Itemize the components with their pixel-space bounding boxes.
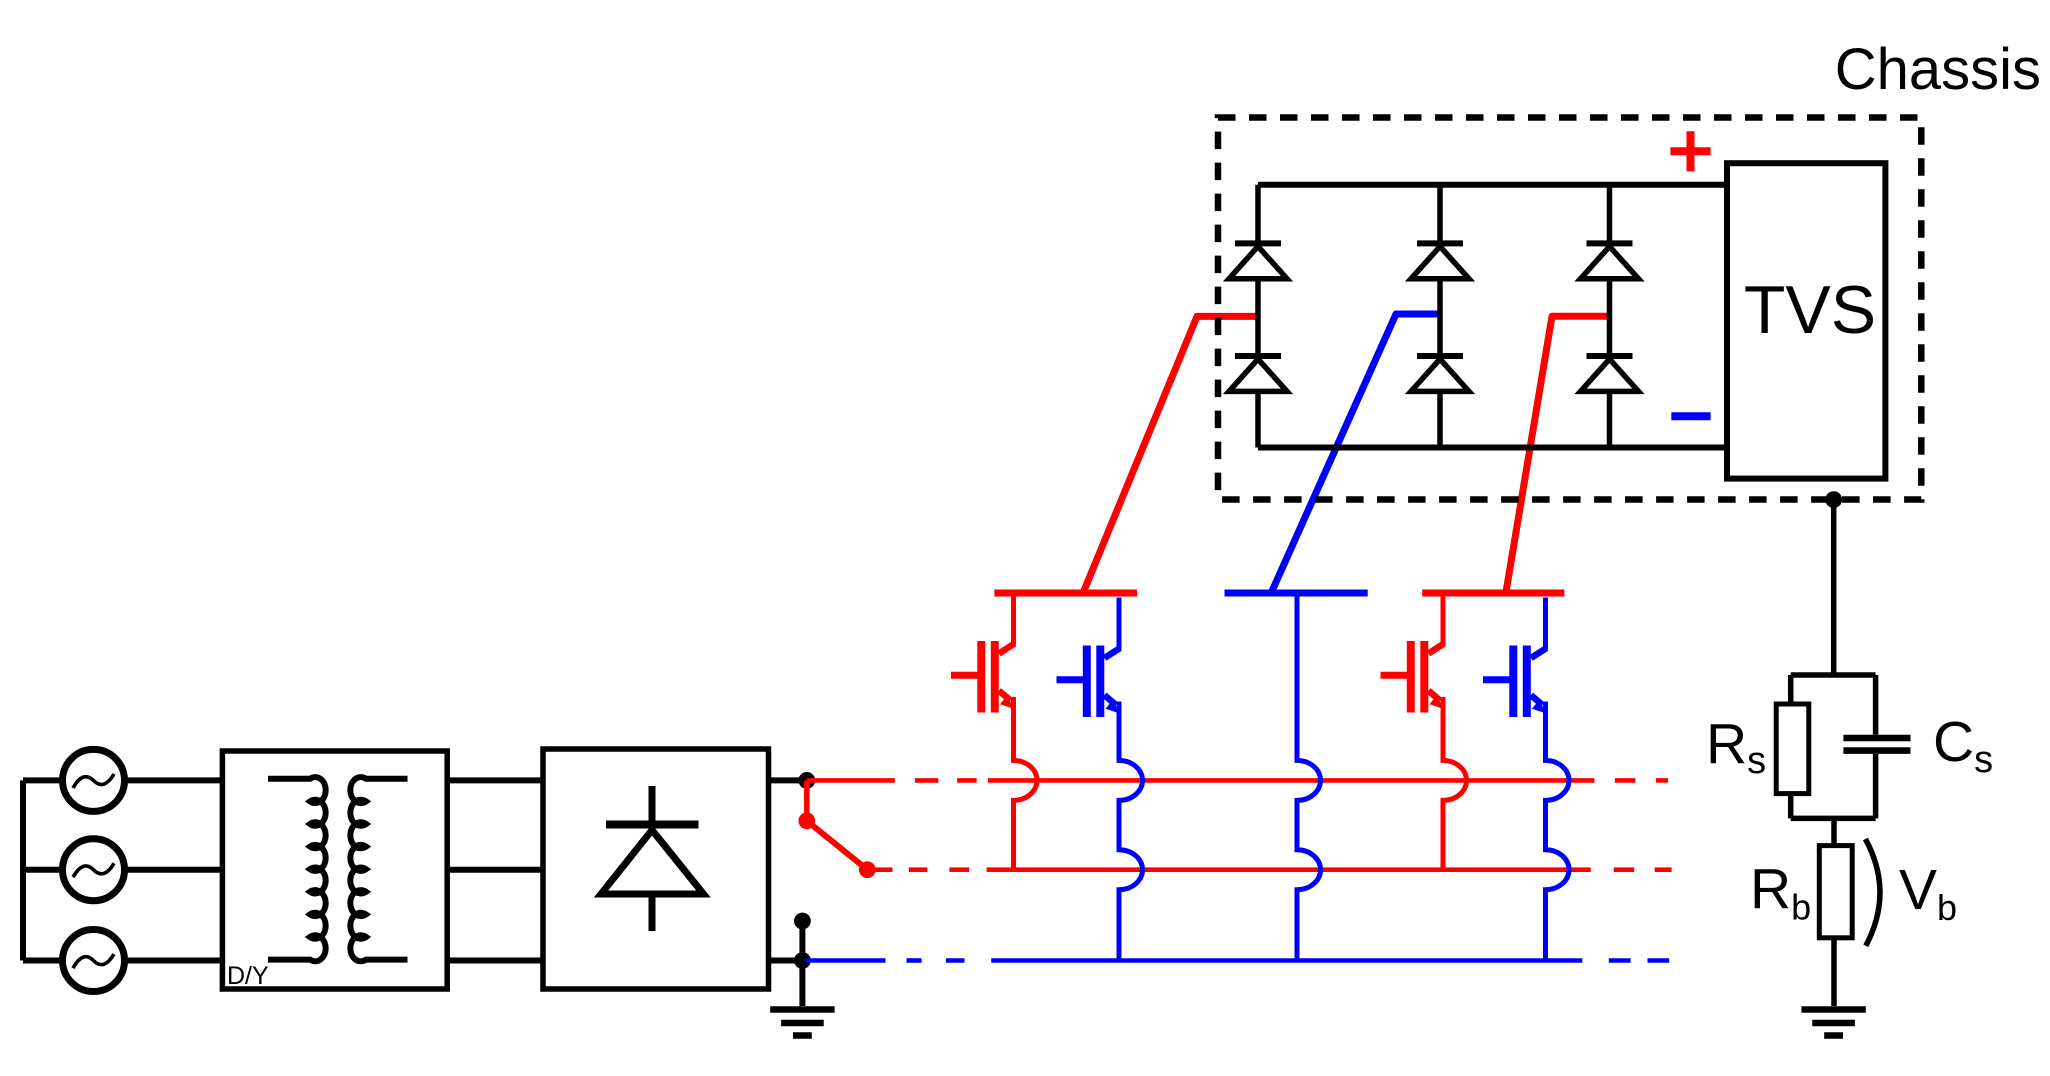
diode D6 (bridge leg3 bottom) [1581,356,1639,391]
wire: Rs bottom lead [1788,794,1794,819]
transistor Q2 (IGBT, blue, phase A lower) [1057,598,1121,718]
svg-text:Chassis: Chassis [1835,37,2041,102]
wire: V3 to transformer [124,958,223,964]
wire: chassis node to snubber [1831,500,1837,675]
transformer T1 box [222,751,447,989]
rectifier box [543,749,769,989]
wire: Q2 emitter leg with hops [1119,702,1143,961]
wire: rectifier negative output [769,958,803,964]
wire: transformer to rectifier phase c [447,958,543,964]
capacitor Cs [1843,738,1910,751]
wire: bridge bottom rail [1258,445,1728,451]
wire: bus stub to V3 [23,958,64,964]
wire: phase B feed diagonal to bridge (blue) [1272,314,1440,592]
diode D2 (bridge leg1 bottom) [1229,356,1287,391]
TVS module U1 [1727,163,1885,478]
transformer T1 secondary winding [350,777,407,961]
transistor Q4 (IGBT, blue, phase C lower) [1483,598,1547,718]
diode D4 (bridge leg2 bottom) [1411,356,1469,391]
transformer T1 primary winding [268,777,326,961]
wire: snubber bottom bar [1791,816,1876,822]
wire: snubber top bar [1791,672,1876,678]
junction dot: chassis node [1825,491,1842,508]
Vb measurement arc [1865,839,1880,946]
AC source V3 [63,930,125,992]
ground (rectifier neutral) [770,1010,834,1036]
wire: Q4 emitter leg with hops [1546,702,1569,961]
svg-text:Rb: Rb [1750,857,1811,928]
diode D3 (bridge leg2 top) [1411,243,1469,278]
wire: left AC bus vertical [20,780,26,960]
diode D1 (bridge leg1 top) [1229,243,1287,278]
node: return bus line (blue, dashed+solid) [806,958,1669,963]
AC source V2 [63,839,125,901]
diode D5 (bridge leg3 top) [1581,243,1639,278]
wire: rectifier positive output [769,777,807,783]
svg-text:Vb: Vb [1899,858,1957,928]
label + (positive terminal) [1670,131,1710,171]
resistor Rs [1776,704,1809,794]
wire: transformer to rectifier phase a [447,777,543,783]
transistor Q1 (IGBT, red, phase A upper) [951,593,1015,713]
wire: phase A collector bar (red) [994,590,1137,597]
resistor Rb [1819,846,1852,938]
wire: phase B collector bar (blue) [1225,590,1368,597]
junction dot: negative output [794,952,811,969]
wire: phase C feed diagonal to bridge (red) [1506,316,1610,592]
switch S1 arm (red) [807,821,868,870]
wire: bus stub to V2 [23,867,64,873]
wire: neutral to ground [799,961,805,1007]
label - (negative terminal) [1671,412,1710,420]
wire: bus stub to V1 [23,777,64,783]
wire: snubber to Rb [1831,818,1837,845]
svg-text:TVS: TVS [1744,272,1876,348]
wire: bridge leg 1 segments [1255,185,1261,448]
wire: transformer to rectifier phase b [447,867,543,873]
wire: phase C collector bar (red) [1422,590,1564,597]
wire: V1 to transformer [124,777,223,783]
wire: Cs top lead [1873,675,1879,735]
transistor Q3 (IGBT, red, phase C upper) [1381,593,1445,713]
svg-text:Rs: Rs [1706,712,1766,782]
wire: phase A feed diagonal to bridge (red) [1083,316,1258,593]
switch S1 pole wire (red) [804,780,810,820]
svg-text:Cs: Cs [1933,710,1993,781]
AC source V1 [63,749,125,811]
wire: Q1 emitter leg with hop over positive bus [1014,697,1038,870]
svg-text:D/Y: D/Y [227,962,269,990]
wire: Rb to ground [1831,938,1837,1006]
wire: Rs top lead [1788,675,1794,704]
switch open contact dot with stem [794,913,811,961]
chassis boundary (dashed) [1218,118,1921,500]
junction dot: switch pole (red) [798,812,815,829]
node: positive bus line (red, dashed+solid) [807,778,1668,783]
junction dot: switch throw (red) [859,861,876,878]
wire: bridge leg 3 segments [1607,185,1613,448]
wire: V2 to transformer [124,867,223,873]
ground (snubber) [1801,1010,1865,1036]
wire: phase B riser with hops (blue) [1297,597,1320,961]
junction dot: positive output [798,772,815,789]
wire: bridge leg 2 segments [1437,185,1443,448]
node: switched bus line (red, dashed+solid) [867,867,1671,872]
wire: Q3 emitter leg with hop [1443,697,1467,870]
rectifier diode symbol [601,786,704,931]
wire: bridge top rail [1258,182,1728,188]
wire: Cs bottom lead [1873,754,1879,818]
